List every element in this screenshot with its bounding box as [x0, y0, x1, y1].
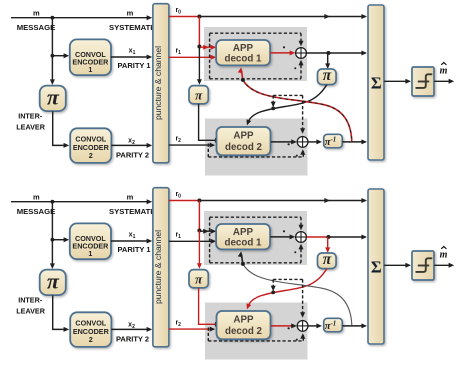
- svg-text:Σ: Σ: [371, 74, 382, 93]
- svg-text:APP: APP: [233, 130, 254, 141]
- svg-text:puncture & channel: puncture & channel: [153, 230, 163, 304]
- svg-text:MESSAGE: MESSAGE: [17, 207, 55, 216]
- svg-text:π: π: [195, 87, 203, 102]
- svg-text:INTER-: INTER-: [18, 112, 43, 121]
- svg-text:m: m: [440, 250, 448, 261]
- svg-text:π: π: [323, 67, 332, 84]
- svg-text:m: m: [33, 192, 40, 201]
- svg-text:Σ: Σ: [371, 258, 382, 277]
- svg-text:APP: APP: [233, 314, 254, 325]
- svg-text:MESSAGE: MESSAGE: [17, 23, 55, 32]
- svg-text:2: 2: [89, 335, 93, 344]
- svg-text:APP: APP: [233, 43, 254, 54]
- svg-text:π: π: [323, 251, 332, 268]
- svg-text:m: m: [33, 8, 40, 17]
- svg-text:decod 2: decod 2: [225, 142, 263, 153]
- svg-text:LEAVER: LEAVER: [16, 122, 45, 131]
- svg-text:SYSTEMATIC: SYSTEMATIC: [109, 23, 158, 32]
- svg-text:decod 1: decod 1: [224, 238, 262, 249]
- svg-text:SYSTEMATIC: SYSTEMATIC: [109, 207, 158, 216]
- svg-text:1: 1: [88, 249, 92, 258]
- svg-text:decod 1: decod 1: [224, 54, 262, 65]
- svg-text:1: 1: [88, 65, 92, 74]
- svg-text:PARITY 2: PARITY 2: [116, 150, 149, 159]
- svg-text:LEAVER: LEAVER: [16, 306, 45, 315]
- svg-text:PARITY 2: PARITY 2: [116, 334, 149, 343]
- svg-text:APP: APP: [233, 227, 254, 238]
- svg-text:π: π: [47, 84, 60, 109]
- svg-text:PARITY 1: PARITY 1: [117, 61, 150, 70]
- svg-text:PARITY 1: PARITY 1: [117, 245, 150, 254]
- svg-text:m: m: [127, 192, 134, 201]
- svg-text:puncture & channel: puncture & channel: [153, 46, 163, 120]
- svg-text:π: π: [195, 271, 203, 286]
- svg-text:π: π: [47, 268, 60, 293]
- svg-text:m: m: [127, 8, 134, 17]
- svg-text:INTER-: INTER-: [18, 296, 43, 305]
- svg-text:m: m: [440, 66, 448, 77]
- svg-text:decod 2: decod 2: [225, 326, 263, 337]
- svg-text:2: 2: [89, 151, 93, 160]
